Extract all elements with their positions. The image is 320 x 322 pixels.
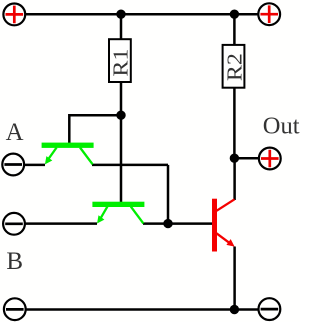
svg-text:Out: Out: [263, 113, 300, 140]
svg-text:R2: R2: [222, 53, 246, 81]
svg-text:A: A: [6, 119, 24, 146]
svg-text:B: B: [6, 248, 23, 275]
svg-text:R1: R1: [109, 49, 133, 77]
